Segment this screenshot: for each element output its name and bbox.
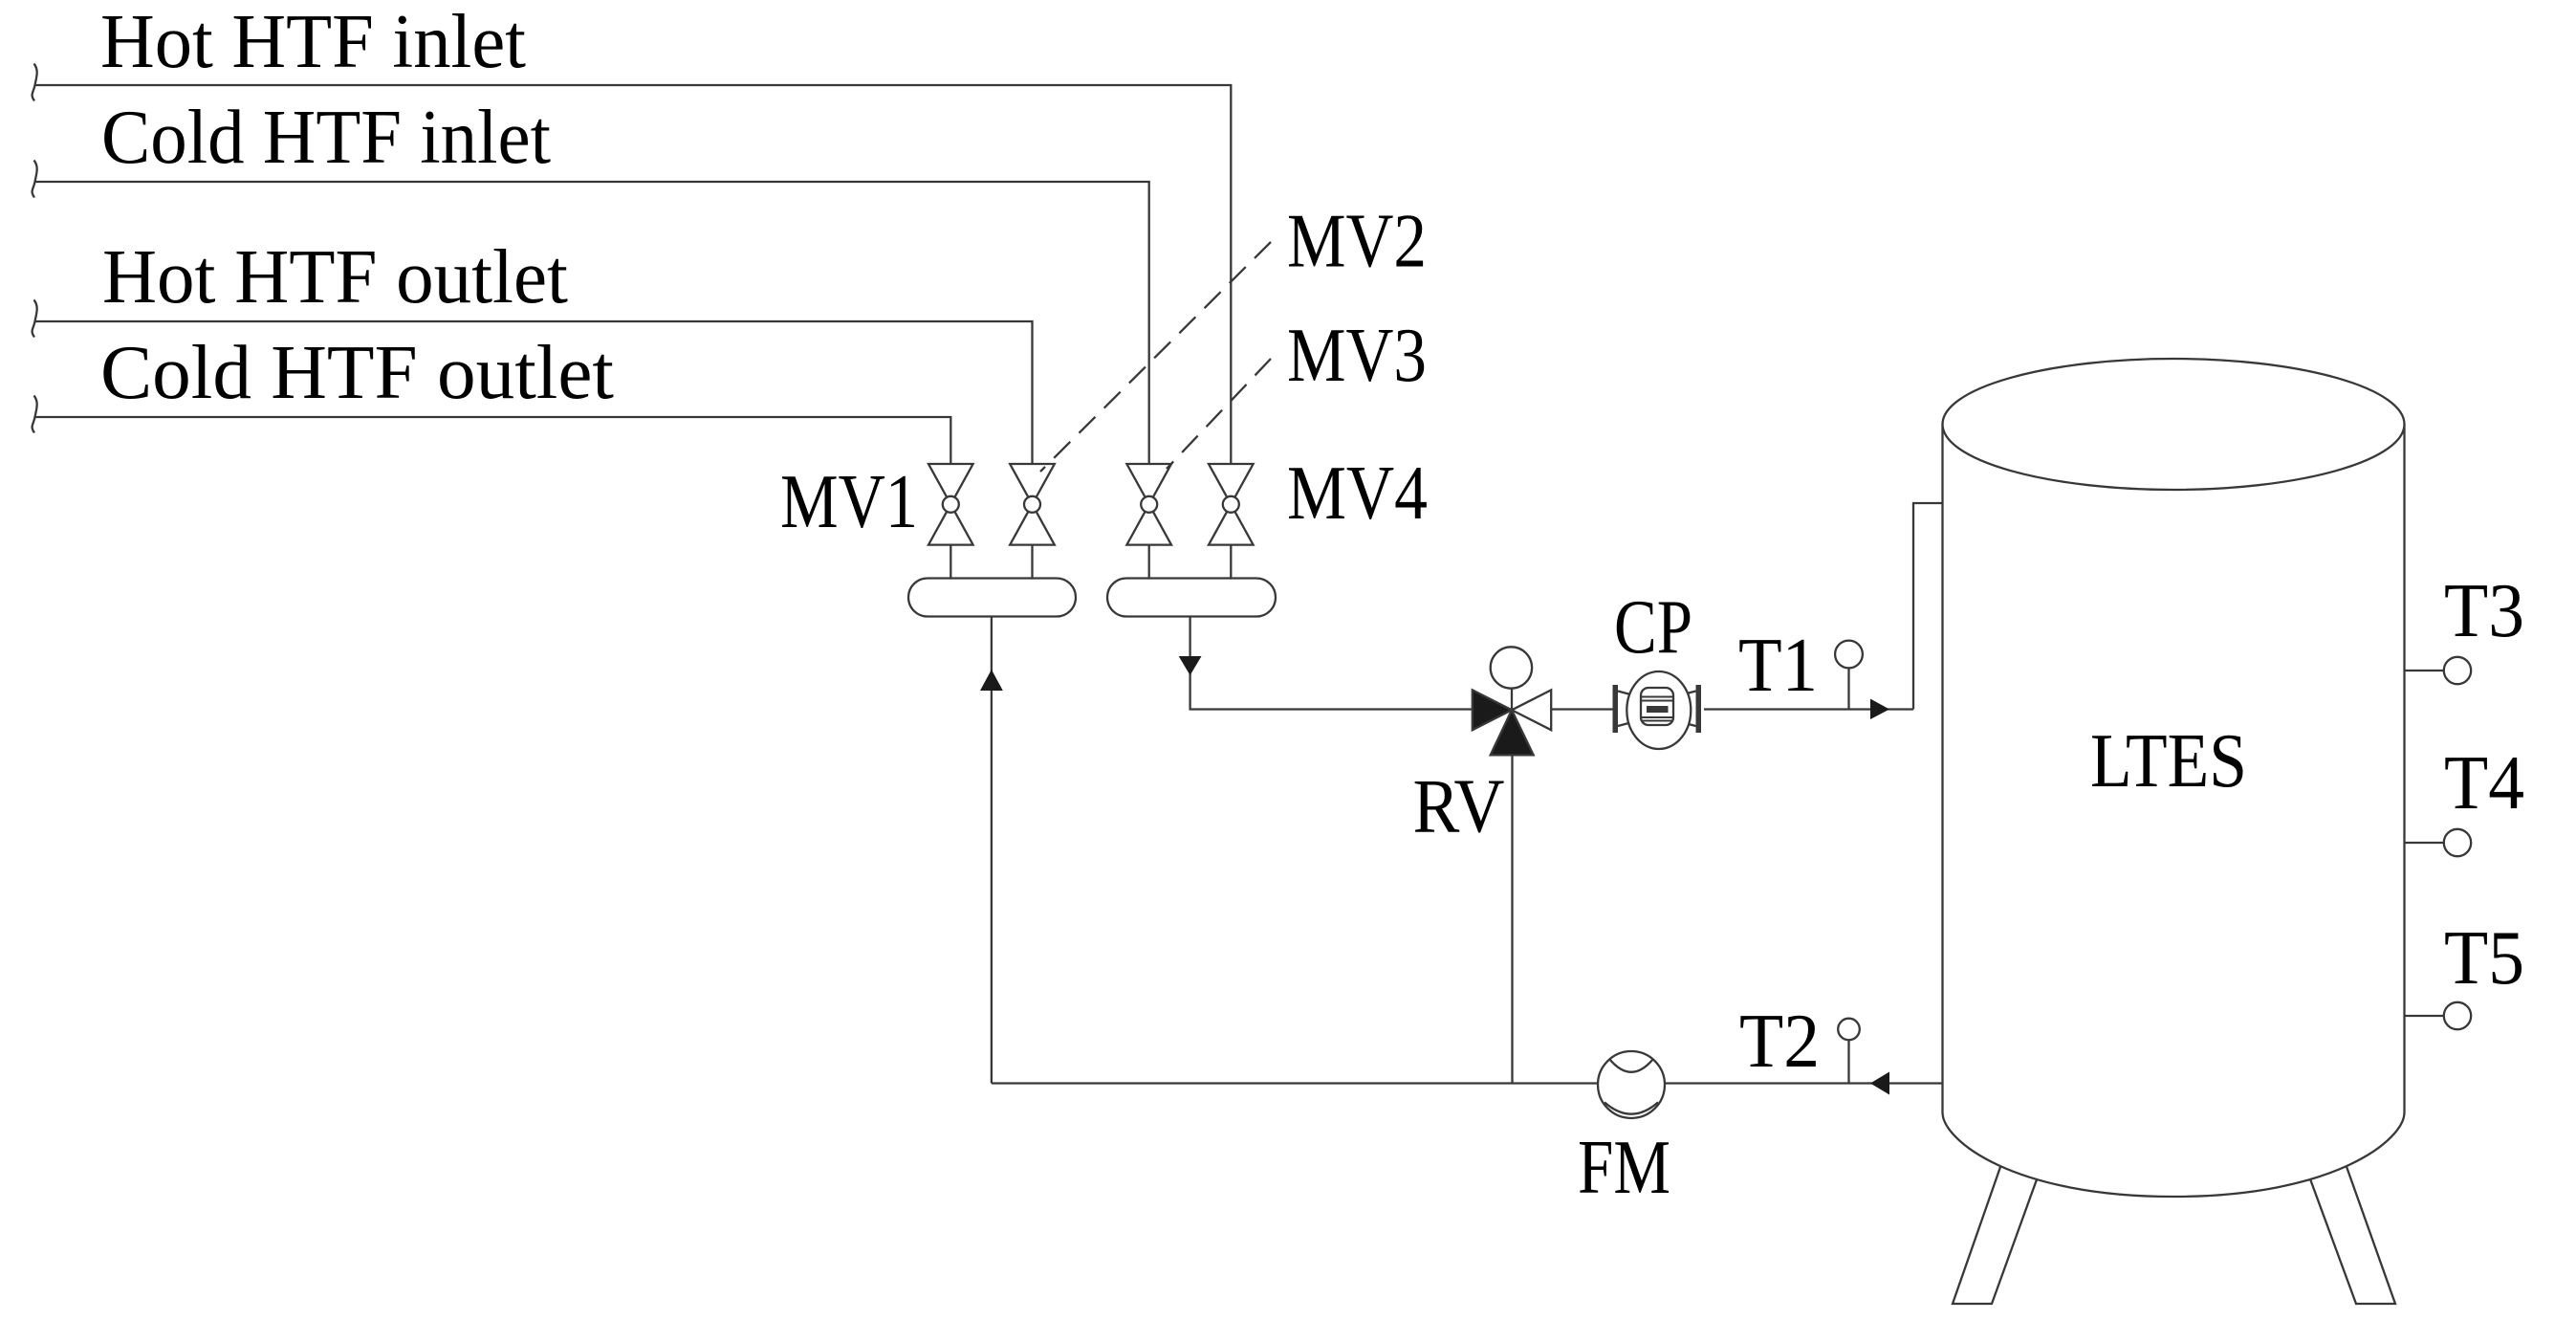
leader dashed line to valve MV3 xyxy=(1167,359,1271,469)
svg-text:T3: T3 xyxy=(2444,567,2524,653)
svg-text:T1: T1 xyxy=(1738,622,1818,708)
valve MV3 xyxy=(1126,464,1171,580)
wire: return riser from return pipe up to left manifold xyxy=(991,617,993,1084)
pipe break: Hot HTF outlet xyxy=(33,300,37,338)
sensor T4 stub xyxy=(2405,842,2445,844)
wire: supply from right manifold down and right to valve RV xyxy=(1190,617,1473,710)
wire: return pipe from tank to riser xyxy=(992,1082,1943,1084)
sensor T2 stem xyxy=(1847,1040,1849,1084)
arrow down on supply drop xyxy=(1179,656,1202,675)
svg-text:Hot HTF inlet: Hot HTF inlet xyxy=(100,0,526,84)
svg-text:T2: T2 xyxy=(1739,998,1820,1084)
sensor T5 bulb xyxy=(2444,1002,2471,1029)
svg-text:MV2: MV2 xyxy=(1287,198,1427,284)
svg-text:Cold HTF inlet: Cold HTF inlet xyxy=(101,94,551,180)
sensor T4 bulb xyxy=(2444,829,2471,856)
sensor T3 stub xyxy=(2405,670,2445,671)
arrow left on return pipe xyxy=(1870,1072,1889,1095)
manifold header left xyxy=(908,579,1076,617)
valve MV1 xyxy=(928,464,973,580)
wire: Cold HTF inlet header line with drop to valve MV3 xyxy=(35,182,1149,464)
sensor T1 stem xyxy=(1847,668,1849,710)
svg-text:Cold HTF outlet: Cold HTF outlet xyxy=(100,329,614,415)
tank LTES body xyxy=(1943,425,2405,1198)
svg-text:T4: T4 xyxy=(2444,739,2524,825)
wire: Cold HTF outlet header line with drop to valve MV1 xyxy=(35,417,951,464)
sensor T2 bulb xyxy=(1838,1019,1860,1041)
pump CP xyxy=(1613,671,1702,749)
wire: pump CP to tank inlet riser xyxy=(1704,708,1913,710)
svg-text:FM: FM xyxy=(1578,1124,1670,1210)
tank leg left xyxy=(1953,1148,2048,1304)
valve MV2 xyxy=(1010,464,1055,580)
flow meter FM xyxy=(1598,1051,1665,1118)
svg-text:MV3: MV3 xyxy=(1287,312,1427,398)
svg-text:MV1: MV1 xyxy=(780,458,918,544)
tank LTES top ellipse xyxy=(1943,359,2405,490)
pipe break: Hot HTF inlet xyxy=(33,64,37,101)
sensor T1 bulb xyxy=(1835,641,1863,669)
svg-text:RV: RV xyxy=(1413,763,1505,849)
wire: Hot HTF inlet header line with drop to valve MV4 xyxy=(35,85,1232,464)
valve RV (3-way) xyxy=(1473,647,1551,755)
sensor T5 stub xyxy=(2405,1015,2445,1017)
svg-text:CP: CP xyxy=(1614,583,1692,670)
wire: RV down to return pipe xyxy=(1511,755,1513,1083)
sensor T3 bulb xyxy=(2444,657,2471,684)
wire: RV to pump CP xyxy=(1551,708,1613,710)
pipe break: Cold HTF inlet xyxy=(33,161,37,198)
leader dashed line to valve MV2 xyxy=(1040,242,1271,472)
svg-text:MV4: MV4 xyxy=(1287,450,1428,536)
tank leg right xyxy=(2299,1148,2395,1304)
svg-text:Hot HTF outlet: Hot HTF outlet xyxy=(102,233,568,319)
svg-text:T5: T5 xyxy=(2444,914,2524,1001)
valve MV4 xyxy=(1209,464,1254,580)
arrow up into left manifold xyxy=(980,670,1003,691)
arrow right on tank inlet pipe xyxy=(1870,699,1889,720)
wire: Hot HTF outlet header line with drop to valve MV2 xyxy=(35,321,1033,464)
wire: inlet riser up and into tank xyxy=(1913,503,1943,710)
manifold header right xyxy=(1107,579,1276,617)
svg-text:LTES: LTES xyxy=(2090,717,2247,803)
pipe break: Cold HTF outlet xyxy=(33,396,37,433)
